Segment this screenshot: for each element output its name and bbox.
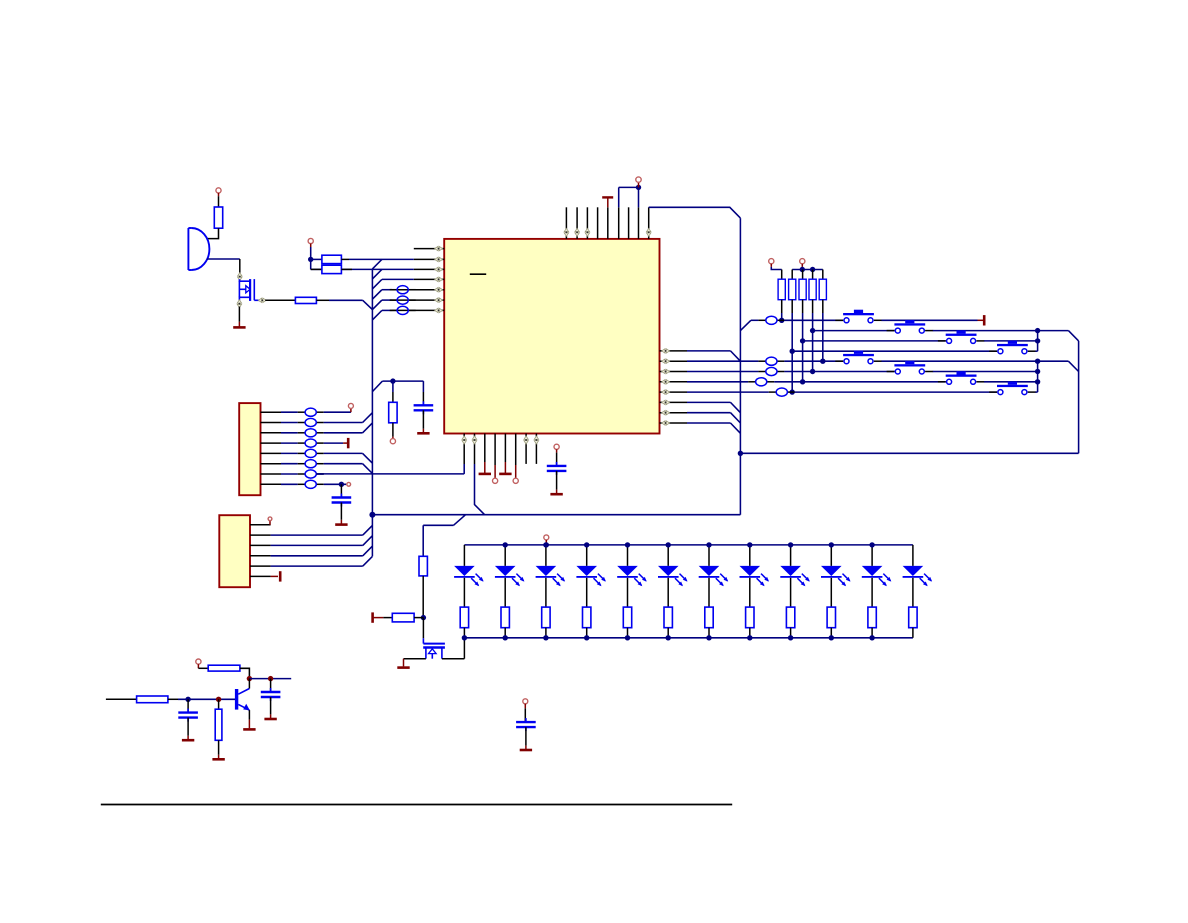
wire row8 mid bbox=[795, 391, 997, 393]
wire R1 to speaker bbox=[207, 228, 219, 238]
power port above R1 bbox=[216, 188, 221, 196]
junction R7-row8 bbox=[790, 389, 795, 394]
wire J1 row5 bbox=[324, 453, 373, 463]
power port P2 bbox=[800, 259, 805, 267]
resistor RL12 junctions bbox=[0, 0, 1, 1]
bead FB J1-3 bbox=[281, 429, 324, 437]
IC U1 body bbox=[444, 239, 659, 434]
LED D3 bbox=[536, 545, 566, 638]
connector J2 pin 6 bbox=[250, 575, 271, 577]
wire P1 to R6 bbox=[771, 267, 781, 270]
wire J1 row4 bbox=[324, 442, 347, 444]
wire right pin8 jog bbox=[687, 423, 740, 433]
resistor R1 bbox=[214, 207, 222, 228]
switch S3 bbox=[938, 330, 985, 343]
wire P3 to R3 bbox=[311, 258, 322, 260]
connector J2 pin 2 bbox=[250, 534, 271, 536]
junction left bus bbox=[369, 512, 375, 518]
wire row7 mid bbox=[774, 381, 946, 383]
resistor R13 bbox=[137, 696, 168, 703]
LED D1 bbox=[454, 545, 484, 638]
bead FB1 bbox=[758, 316, 784, 324]
resistor R4 bbox=[322, 265, 342, 273]
wire C2 bottom bbox=[340, 503, 342, 525]
LED D11 bbox=[862, 545, 892, 638]
IC U1 bottom pin 6 bbox=[515, 434, 517, 466]
junction R8-row7 bbox=[800, 379, 805, 384]
wire row5 right bbox=[882, 360, 1038, 362]
connector J1 pin 7 bbox=[261, 473, 282, 475]
wire pin3 line bbox=[311, 269, 414, 279]
wire row5 left bbox=[687, 360, 758, 362]
wire P3 down bbox=[310, 247, 312, 269]
wire R14 top bbox=[218, 699, 220, 709]
LED D5 bbox=[617, 545, 647, 638]
wire R13 to base bbox=[168, 698, 236, 700]
resistor RL11 junctions bbox=[869, 542, 874, 640]
ground Q3 bbox=[397, 659, 409, 668]
ground under bottom pin 3 bbox=[479, 462, 491, 474]
ground under bottom pin 5 bbox=[499, 462, 511, 474]
wire R7 top lead bbox=[791, 270, 793, 280]
wire top pins 6-8 to VCC bbox=[619, 187, 639, 207]
wire right bus to row1 bbox=[740, 320, 751, 330]
wire Q1 gate bbox=[265, 299, 295, 301]
IC U1 right pin 5 bbox=[660, 390, 688, 394]
ground under C1 bbox=[417, 432, 429, 435]
wire group1 common bbox=[1038, 331, 1079, 352]
IC U1 left pin 6 bbox=[392, 298, 444, 302]
junction LED rail VCC bbox=[544, 542, 549, 547]
wire bus tap bbox=[372, 381, 423, 392]
wire J1 row3 bbox=[324, 423, 373, 433]
wire J2 pin3 bbox=[271, 536, 373, 546]
wire C3 top bbox=[187, 699, 189, 712]
ground bar above top pin 5 bbox=[602, 197, 613, 207]
wire row7 right bbox=[984, 381, 1038, 383]
capacitor C3 bbox=[178, 709, 198, 722]
LED D10 bbox=[821, 545, 851, 638]
bar terminator J1 row4 bbox=[347, 438, 350, 448]
wire P2 rail bbox=[792, 267, 823, 270]
wire top pin 9 to bus bbox=[649, 207, 741, 218]
wire J2 pin6 bbox=[271, 575, 278, 577]
bar terminator J2 pin6 bbox=[279, 571, 282, 581]
IC U1 bottom pin 1 bbox=[462, 434, 466, 465]
wire R5 bottom bbox=[392, 423, 394, 439]
wire R6 top lead bbox=[781, 270, 783, 280]
connector J2 pin 5 bbox=[250, 565, 271, 567]
wire C5 bottom bbox=[525, 727, 527, 750]
bead FB5 bbox=[769, 388, 795, 396]
wire row3 left bbox=[803, 340, 946, 342]
IC U1 designator mark bbox=[470, 273, 486, 275]
bead FB3 bbox=[758, 367, 784, 375]
wire row7 left bbox=[687, 381, 748, 383]
junction P3 bbox=[308, 257, 313, 262]
resistor RL5 junctions bbox=[625, 542, 630, 640]
connector J1 pin 4 bbox=[261, 442, 282, 444]
wire Q3 drain bbox=[442, 638, 465, 659]
wire row2 left bbox=[813, 330, 895, 332]
wire R9 bottom lead bbox=[812, 300, 814, 372]
wire right pin1 jog bbox=[687, 351, 740, 361]
wire C2 top bbox=[340, 484, 342, 497]
power port under bottom pin 4 bbox=[493, 465, 498, 483]
junction LED gate bbox=[421, 615, 426, 620]
IC U1 left pin 5 bbox=[392, 288, 444, 292]
switch S8 bbox=[989, 382, 1036, 395]
junction J1 row8 bbox=[339, 482, 344, 487]
junction P2 rail a bbox=[800, 267, 805, 272]
connector J2 pin 4 bbox=[250, 555, 271, 557]
IC U1 top pin 1 bbox=[564, 207, 568, 239]
IC U1 top pin 4 bbox=[597, 207, 599, 239]
IC U1 top pin 3 bbox=[585, 207, 589, 239]
junction base node b bbox=[216, 697, 221, 702]
IC U1 left pin 3 bbox=[414, 267, 444, 271]
resistor RL2 junctions bbox=[503, 542, 508, 640]
wire row8 right bbox=[1035, 391, 1037, 393]
resistor R7 bbox=[789, 279, 796, 300]
wire audio input stub bbox=[106, 698, 137, 700]
wire C1 bottom bbox=[422, 410, 424, 433]
bead FB J1-8 bbox=[281, 480, 324, 488]
resistor R15 bbox=[208, 665, 240, 671]
junction C4 node bbox=[268, 676, 273, 681]
wire row3 right bbox=[984, 340, 1038, 342]
transistor Q1 bbox=[239, 279, 260, 301]
ground under C4 bbox=[264, 718, 276, 721]
junction R6-row1 bbox=[779, 318, 784, 323]
junction group2 c bbox=[1035, 379, 1040, 384]
connector J1 pin 1 bbox=[261, 411, 282, 413]
LED D9 bbox=[780, 545, 810, 638]
wire C4 top bbox=[270, 679, 272, 692]
capacitor C5 bbox=[516, 718, 536, 731]
junction base node a bbox=[185, 697, 190, 702]
resistor RL7 junctions bbox=[706, 542, 711, 640]
wire LED top rail bbox=[464, 544, 913, 546]
wire row8 left bbox=[687, 391, 769, 393]
connector J1 pin 2 bbox=[261, 422, 282, 424]
connector J1 pin 8 bbox=[261, 483, 282, 485]
bar terminator R12 bbox=[373, 612, 384, 622]
IC U1 right pin 7 bbox=[660, 411, 688, 415]
wire J1 row1 to port bbox=[324, 408, 351, 412]
capacitor C7 bbox=[547, 462, 567, 475]
wire J1 row8 bbox=[324, 483, 347, 485]
resistor R2 bbox=[295, 297, 316, 303]
resistor R9 bbox=[809, 279, 816, 300]
wire right pin7 jog bbox=[687, 413, 740, 423]
wire C5 top bbox=[524, 708, 526, 722]
resistor R14 bbox=[215, 709, 222, 740]
IC U1 left pin 4 bbox=[414, 277, 444, 281]
wire R11 bottom bbox=[422, 576, 424, 618]
junction group1 b bbox=[1035, 338, 1040, 343]
wire Q2 collector bbox=[248, 679, 250, 689]
wire left bus vertical bbox=[371, 269, 373, 557]
IC U1 right pin 3 bbox=[660, 369, 688, 373]
wire row1 left bbox=[751, 319, 759, 321]
wire C7 bottom bbox=[556, 471, 558, 490]
connector J1 pin 6 bbox=[261, 463, 282, 465]
wire R5 top lead bbox=[392, 381, 394, 402]
wire gate lead bbox=[422, 618, 424, 639]
wire R1 top bbox=[218, 196, 220, 207]
IC U1 right pin 2 bbox=[660, 359, 688, 363]
junction R7-row4 bbox=[790, 349, 795, 354]
IC U1 bottom pin 5 bbox=[504, 434, 506, 463]
wire R7 bottom lead bbox=[791, 300, 793, 392]
LED D8 bbox=[740, 545, 770, 638]
bead FB J1-4 bbox=[281, 439, 324, 447]
wire right bus vertical bbox=[739, 218, 741, 515]
bead FB J1-5 bbox=[281, 449, 324, 457]
wire speaker to Q1 drain bbox=[207, 259, 240, 273]
bead FB2 bbox=[758, 357, 784, 365]
wire R2 to bus bbox=[316, 300, 372, 309]
junction top VCC bbox=[636, 185, 641, 190]
connector J1 pin 5 bbox=[261, 452, 282, 454]
wire C7 top bbox=[556, 453, 558, 466]
IC U1 bottom pin 4 bbox=[494, 434, 496, 466]
power port P3 bbox=[308, 238, 313, 247]
wire LED bottom rail bbox=[464, 637, 913, 639]
wire Q1 source to ground bbox=[238, 307, 240, 328]
transistor Q3 bbox=[423, 638, 445, 658]
switch S4 bbox=[989, 341, 1036, 354]
wire R10 bottom lead bbox=[822, 300, 824, 362]
wire row6 left bbox=[687, 371, 758, 373]
sheet divider line bbox=[101, 804, 732, 806]
resistor RL4 junctions bbox=[584, 542, 589, 640]
IC U1 bottom pin 7 bbox=[524, 434, 528, 464]
Q1 source pin marker bbox=[237, 300, 241, 308]
resistor RL1 junctions bbox=[462, 635, 467, 640]
power port J1 row1 bbox=[348, 403, 353, 408]
IC U1 left pin 7 bbox=[392, 308, 444, 312]
wire C4 bottom bbox=[270, 697, 272, 719]
junction collector node bbox=[247, 676, 252, 681]
junction bus tap bbox=[390, 378, 395, 383]
ground under C7 bbox=[550, 490, 562, 495]
wire J2 pin5 bbox=[271, 556, 373, 566]
ground under C5 bbox=[520, 749, 532, 752]
IC U1 top pin 9 bbox=[647, 207, 651, 239]
junction R9-row2 bbox=[810, 328, 815, 333]
wire bottom pin2 to LED net bbox=[475, 464, 485, 515]
wire row5 mid bbox=[784, 360, 843, 362]
wire row4 left bbox=[792, 350, 997, 352]
transistor Q2 bbox=[237, 689, 250, 711]
resistor R8 bbox=[799, 279, 806, 300]
switch S7 bbox=[938, 371, 985, 384]
wire far right vertical bbox=[1078, 341, 1080, 453]
bead FB6 bbox=[390, 286, 416, 294]
power port LED rail bbox=[544, 535, 549, 545]
junction R9-row6 bbox=[810, 369, 815, 374]
junction group1 a bbox=[1035, 328, 1040, 333]
wire R6 bottom lead bbox=[781, 300, 783, 321]
wire right bus bottom corner bbox=[372, 514, 740, 516]
resistor RL10 junctions bbox=[829, 542, 834, 640]
wire J1 row7 bbox=[316, 473, 324, 475]
resistor RL3 junctions bbox=[543, 542, 548, 640]
wire pin4 line bbox=[372, 279, 413, 289]
IC U1 right pin 6 bbox=[660, 400, 688, 404]
IC U1 right pin 4 bbox=[660, 380, 688, 384]
power port J2 pin1 bbox=[268, 517, 272, 525]
connector J1 pin 3 bbox=[261, 432, 282, 434]
IC U1 top pin 5 bbox=[607, 207, 609, 239]
capacitor C4 bbox=[261, 688, 281, 701]
bead FB J1-2 bbox=[281, 418, 324, 426]
capacitor C2 bbox=[332, 494, 352, 507]
junction R8-row3 bbox=[800, 338, 805, 343]
bead FB4 bbox=[748, 378, 774, 386]
connector J2 pin 3 bbox=[250, 544, 271, 546]
ground Q2 emitter bbox=[243, 728, 255, 731]
wire group2 common bbox=[1038, 361, 1079, 392]
connector J2 body bbox=[219, 515, 250, 587]
resistor R3 bbox=[322, 255, 342, 263]
resistor R5 bbox=[389, 402, 397, 423]
power port above R15 bbox=[196, 659, 201, 668]
resistor R11 bbox=[419, 556, 427, 576]
wire pin7 line bbox=[372, 310, 392, 320]
wire R9 top lead bbox=[812, 270, 814, 280]
speaker LS1 bbox=[188, 228, 209, 270]
wire row6 right bbox=[933, 371, 1038, 373]
wire LED enable tap bbox=[423, 515, 465, 557]
Q1 drain pin marker bbox=[238, 273, 242, 281]
wire J1 row6 bbox=[324, 464, 373, 474]
wire J2 pin2 bbox=[271, 525, 373, 535]
connector J1 body bbox=[239, 403, 260, 495]
LED D12 bbox=[903, 545, 933, 638]
LED D4 bbox=[576, 545, 606, 638]
resistor RL9 junctions bbox=[788, 542, 793, 640]
junction R10-row5 bbox=[820, 359, 825, 364]
wire C1 top lead bbox=[422, 381, 424, 405]
wire bottom pin1 to connector row7 bbox=[316, 464, 464, 474]
resistor RL6 junctions bbox=[666, 542, 671, 640]
bead FB7 bbox=[390, 296, 416, 304]
wire right pin6 jog bbox=[687, 402, 740, 412]
LED D2 bbox=[495, 545, 525, 638]
resistor RL8 junctions bbox=[747, 542, 752, 640]
switch S2 bbox=[887, 320, 934, 333]
IC U1 bottom pin 3 bbox=[484, 434, 486, 463]
junction P2 rail b bbox=[810, 267, 815, 272]
IC U1 top pin 7 bbox=[628, 207, 630, 239]
bead FB J1-7 bbox=[281, 470, 324, 478]
capacitor C1 bbox=[414, 401, 434, 414]
IC U1 bottom pin 8 bbox=[534, 434, 538, 464]
wire Q3 source bbox=[404, 658, 426, 660]
IC U1 right pin 8 bbox=[660, 421, 688, 425]
power port J1 row8 bbox=[347, 482, 351, 486]
wire pin6 line bbox=[372, 300, 392, 310]
wire J2 pin4 bbox=[271, 546, 373, 556]
LED D7 bbox=[699, 545, 729, 638]
wire R10 top lead bbox=[822, 270, 824, 280]
switch S5 bbox=[835, 351, 882, 364]
resistor R6 bbox=[778, 279, 785, 300]
wire R3 right bbox=[341, 258, 349, 260]
switch S6 bbox=[887, 361, 934, 374]
connector J2 pin 1 bbox=[250, 524, 271, 526]
ground Q1 source bbox=[233, 326, 245, 329]
wire pin5 line bbox=[372, 290, 392, 300]
wire J1 row2 bbox=[324, 413, 373, 423]
switch S1 bbox=[835, 310, 882, 323]
ground under C2 bbox=[335, 523, 347, 526]
wire R8 bottom lead bbox=[802, 300, 804, 382]
wire R14 bottom bbox=[218, 740, 220, 759]
LED D6 bbox=[658, 545, 688, 638]
wire row1 right bbox=[882, 319, 978, 321]
wire collector node right bbox=[249, 678, 291, 680]
power port above C5 bbox=[523, 699, 528, 709]
IC U1 left pin 1 stub bbox=[414, 246, 444, 250]
bar terminator row1 bbox=[978, 315, 985, 325]
wire R15 to collector bbox=[240, 668, 250, 678]
wire pin2 line bbox=[349, 259, 414, 269]
wire R15 left bbox=[198, 667, 208, 669]
IC U1 top pin 8 bbox=[638, 207, 640, 239]
junction group2 b bbox=[1035, 369, 1040, 374]
IC U1 bottom pin 2 bbox=[472, 434, 476, 465]
wire C3 bottom bbox=[187, 718, 189, 741]
bead FB J1-1 bbox=[281, 408, 324, 416]
bead FB8 bbox=[390, 306, 416, 314]
junction group2 a bbox=[1035, 359, 1040, 364]
wire Q2 emitter bbox=[248, 710, 250, 728]
power port P1 bbox=[769, 259, 774, 267]
wire row4 right bbox=[1035, 350, 1037, 352]
IC U1 left pin 2 bbox=[414, 257, 444, 261]
wire row1 mid bbox=[784, 319, 843, 321]
ground under C3 bbox=[182, 739, 194, 742]
wire row6 mid bbox=[784, 371, 894, 373]
bead FB J1-6 bbox=[281, 460, 324, 468]
power port above C7 bbox=[554, 444, 559, 452]
power port VCC top bbox=[636, 177, 641, 187]
IC U1 right pin 1 bbox=[660, 349, 688, 353]
IC U1 top pin 6 bbox=[618, 207, 620, 239]
wire row2 right bbox=[933, 330, 1038, 332]
IC U1 top pin 2 bbox=[575, 207, 579, 239]
Q1 gate pin marker bbox=[258, 298, 266, 302]
wire R4 right bbox=[341, 268, 352, 270]
wire P3 to R4 bbox=[311, 268, 322, 270]
ground under R14 bbox=[212, 758, 224, 761]
junction right bus switch-common bbox=[738, 451, 743, 456]
power port under R5 bbox=[390, 439, 395, 444]
power port under bottom pin 6 bbox=[513, 465, 518, 483]
resistor R10 bbox=[819, 279, 826, 300]
wire R8 top lead bbox=[802, 270, 804, 280]
resistor R12 bbox=[383, 613, 423, 622]
wire switch common return bbox=[740, 452, 1078, 454]
